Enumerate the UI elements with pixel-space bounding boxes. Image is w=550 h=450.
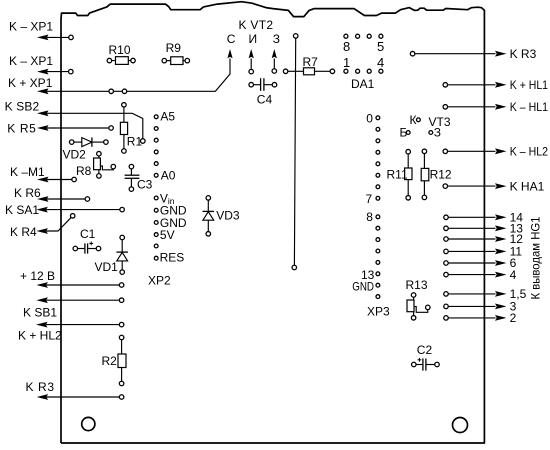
svg-text:R8: R8 [76, 164, 92, 178]
svg-text:K SB2: K SB2 [5, 99, 40, 113]
svg-text:K – HL1: K – HL1 [510, 100, 548, 114]
svg-text:R10: R10 [109, 43, 131, 57]
svg-text:R13: R13 [406, 278, 428, 292]
svg-text:З: З [434, 126, 441, 140]
svg-text:5V: 5V [160, 228, 175, 242]
svg-text:0: 0 [366, 111, 373, 125]
svg-text:R7: R7 [303, 55, 319, 69]
svg-text:A5: A5 [160, 110, 175, 124]
svg-text:З: З [273, 32, 280, 46]
svg-text:К: К [410, 113, 417, 127]
svg-text:K SB1: K SB1 [23, 306, 57, 320]
svg-text:R9: R9 [166, 41, 182, 55]
svg-text:R2: R2 [102, 354, 118, 368]
svg-text:VD2: VD2 [63, 148, 87, 162]
svg-text:K VT2: K VT2 [239, 18, 274, 32]
svg-text:K – XP1: K – XP1 [9, 54, 53, 68]
svg-text:K R5: K R5 [7, 122, 36, 136]
svg-text:1: 1 [343, 55, 350, 70]
svg-text:K + XP1: K + XP1 [8, 76, 53, 90]
svg-text:A0: A0 [161, 168, 176, 182]
svg-text:XP2: XP2 [148, 274, 171, 288]
svg-text:+ 12 В: + 12 В [20, 269, 55, 283]
svg-text:K –M1: K –M1 [10, 165, 45, 179]
svg-text:VD3: VD3 [216, 209, 240, 223]
svg-text:K R6: K R6 [14, 186, 41, 200]
svg-text:GND: GND [352, 279, 374, 293]
svg-text:K R4: K R4 [10, 225, 37, 239]
svg-text:RES: RES [160, 251, 185, 265]
svg-text:И: И [249, 32, 258, 46]
svg-text:8: 8 [343, 39, 350, 54]
svg-text:4: 4 [510, 268, 517, 282]
svg-text:5: 5 [377, 39, 384, 54]
svg-text:K + HL1: K + HL1 [510, 78, 548, 92]
svg-text:K HA1: K HA1 [510, 179, 545, 193]
svg-text:C3: C3 [137, 178, 153, 192]
svg-text:K – HL2: K – HL2 [510, 145, 548, 159]
svg-text:К выводам HG1: К выводам HG1 [529, 216, 543, 299]
svg-text:VD1: VD1 [95, 260, 119, 274]
svg-text:C1: C1 [80, 227, 96, 241]
svg-text:4: 4 [377, 55, 384, 70]
svg-text:R12: R12 [430, 167, 452, 181]
svg-text:7: 7 [366, 192, 373, 206]
svg-text:8: 8 [366, 210, 373, 224]
svg-text:K R3: K R3 [510, 47, 537, 61]
svg-text:R11: R11 [387, 167, 408, 181]
svg-text:C4: C4 [257, 93, 273, 107]
svg-text:K SA1: K SA1 [5, 203, 39, 217]
svg-text:K + HL2: K + HL2 [18, 328, 62, 342]
svg-text:K – XP1: K – XP1 [9, 20, 53, 34]
svg-text:XP3: XP3 [367, 305, 390, 319]
svg-text:DA1: DA1 [351, 77, 375, 91]
svg-text:2: 2 [510, 311, 517, 325]
svg-text:C2: C2 [417, 343, 433, 357]
svg-text:K R3: K R3 [26, 380, 55, 394]
svg-text:С: С [227, 32, 236, 46]
